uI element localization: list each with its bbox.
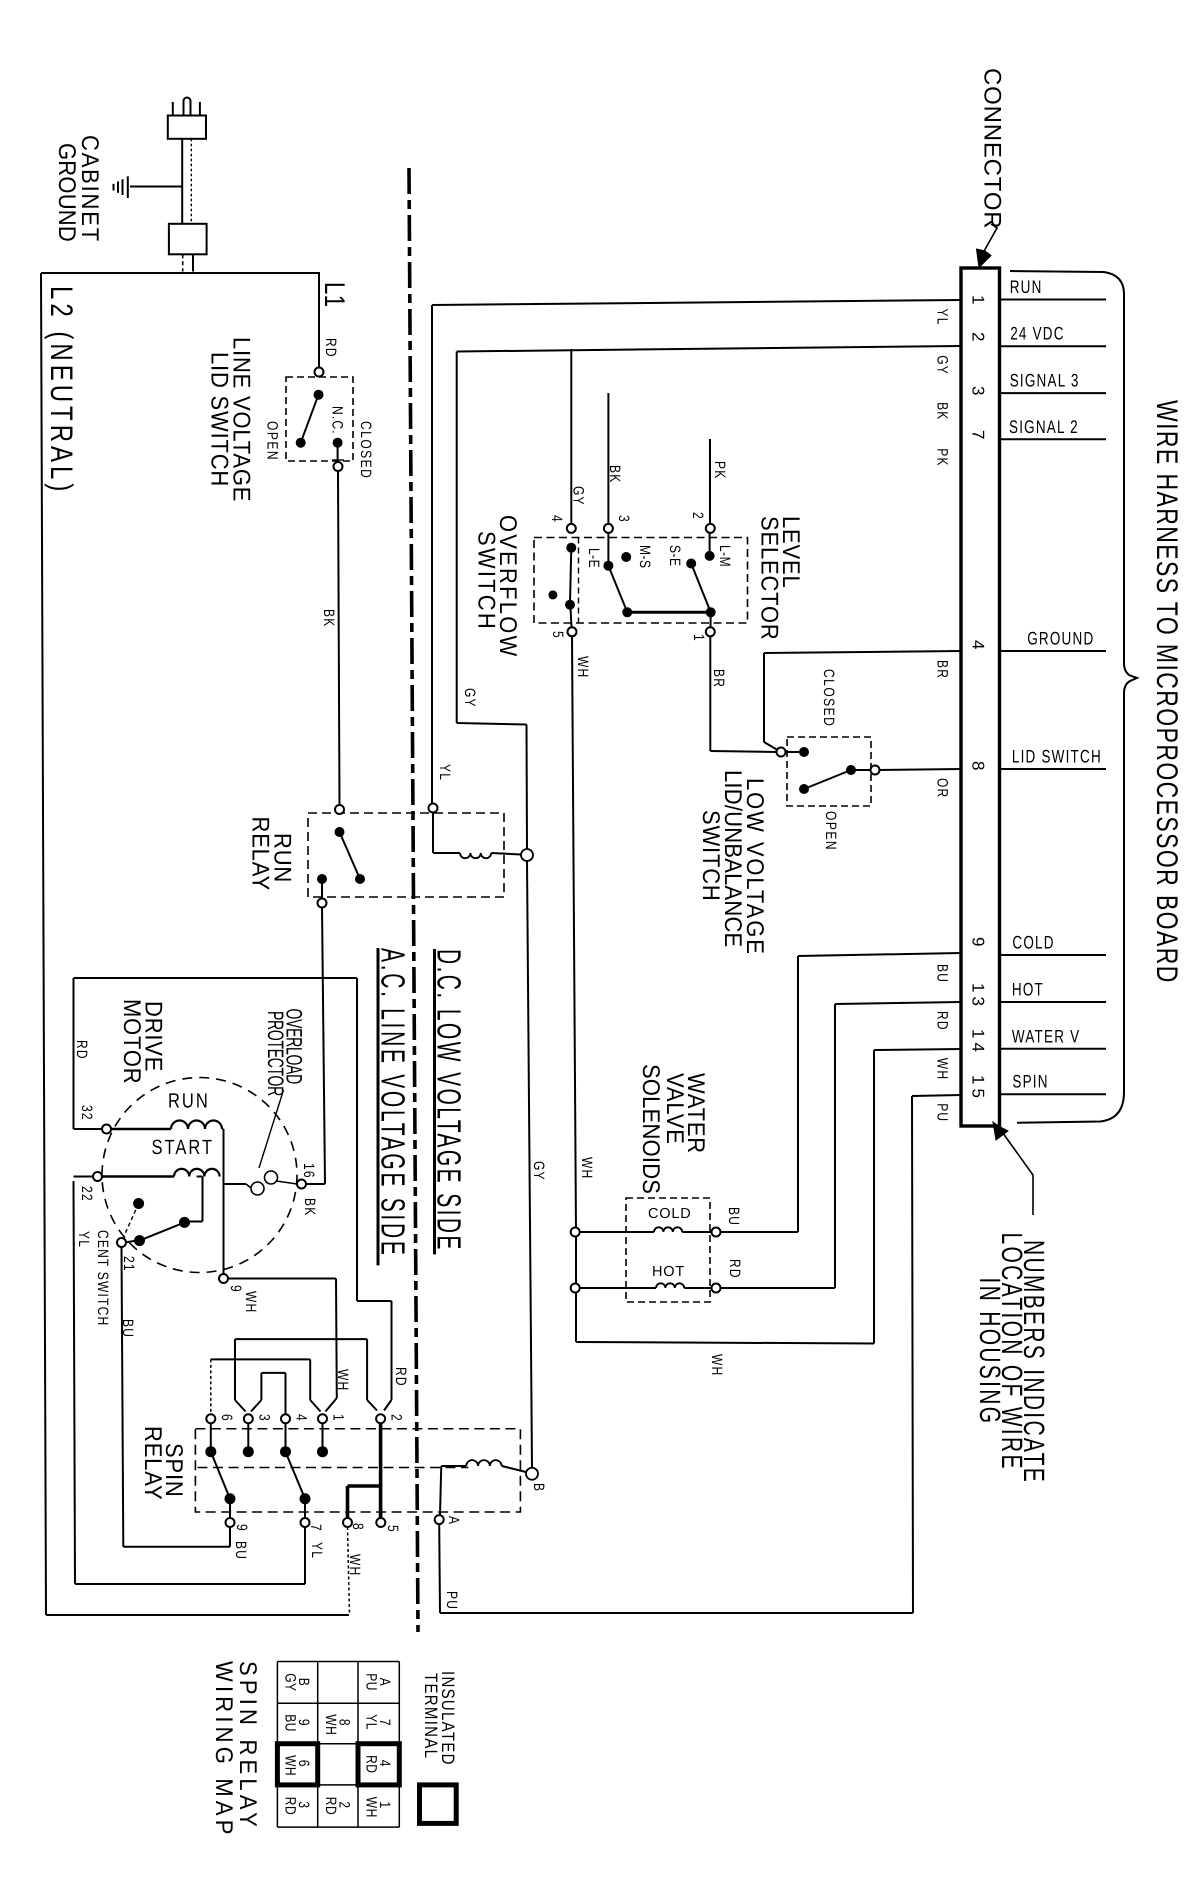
svg-text:PU: PU bbox=[934, 1103, 952, 1122]
svg-text:L1: L1 bbox=[319, 282, 352, 307]
svg-text:YL: YL bbox=[363, 1714, 381, 1730]
svg-text:N.C.: N.C. bbox=[329, 406, 347, 435]
svg-text:15: 15 bbox=[969, 1075, 988, 1102]
svg-text:GY: GY bbox=[530, 1161, 548, 1181]
svg-text:RUN: RUN bbox=[168, 1090, 210, 1113]
svg-text:1: 1 bbox=[690, 634, 708, 641]
svg-text:BU: BU bbox=[119, 1319, 137, 1338]
svg-text:WH: WH bbox=[578, 1157, 596, 1179]
svg-text:WH: WH bbox=[282, 1755, 300, 1776]
svg-text:YL: YL bbox=[75, 1231, 93, 1248]
svg-text:L-E: L-E bbox=[585, 548, 603, 568]
svg-text:3: 3 bbox=[615, 515, 633, 522]
svg-text:START: START bbox=[152, 1137, 215, 1160]
svg-text:RUN: RUN bbox=[1010, 277, 1043, 297]
svg-text:YL: YL bbox=[436, 764, 454, 781]
svg-text:YL: YL bbox=[934, 309, 952, 326]
svg-text:9: 9 bbox=[969, 937, 988, 950]
svg-text:WATER V: WATER V bbox=[1012, 1026, 1080, 1046]
svg-text:SPIN: SPIN bbox=[1012, 1072, 1048, 1092]
svg-text:1: 1 bbox=[969, 295, 988, 308]
svg-text:5: 5 bbox=[384, 1525, 402, 1532]
svg-text:3: 3 bbox=[969, 386, 988, 399]
svg-text:BU: BU bbox=[934, 964, 952, 983]
svg-text:S-E: S-E bbox=[666, 545, 684, 567]
svg-text:GY: GY bbox=[570, 486, 588, 506]
svg-text:BK: BK bbox=[934, 402, 952, 420]
svg-text:COLD: COLD bbox=[1012, 932, 1054, 952]
svg-text:SIGNAL 2: SIGNAL 2 bbox=[1009, 417, 1079, 437]
svg-text:SWITCH: SWITCH bbox=[473, 531, 501, 631]
svg-text:GY: GY bbox=[934, 355, 952, 375]
svg-text:HOT: HOT bbox=[652, 1264, 685, 1280]
svg-text:COLD: COLD bbox=[648, 1206, 692, 1222]
svg-text:PK: PK bbox=[711, 461, 729, 479]
svg-text:BK: BK bbox=[320, 609, 338, 627]
svg-text:MOTOR: MOTOR bbox=[119, 999, 147, 1084]
svg-text:WH: WH bbox=[934, 1058, 952, 1080]
svg-text:RD: RD bbox=[726, 1259, 744, 1279]
svg-text:WH: WH bbox=[363, 1797, 381, 1818]
svg-text:RD: RD bbox=[322, 1797, 340, 1815]
svg-text:WIRE HARNESS TO MICROPROCESSOR: WIRE HARNESS TO MICROPROCESSOR BOARD bbox=[1151, 400, 1185, 984]
svg-text:RD: RD bbox=[282, 1797, 300, 1815]
svg-text:SOLENOIDS: SOLENOIDS bbox=[638, 1064, 666, 1194]
svg-text:3: 3 bbox=[256, 1414, 274, 1421]
svg-text:BK: BK bbox=[606, 465, 624, 483]
svg-text:21: 21 bbox=[120, 1256, 138, 1272]
svg-text:YL: YL bbox=[308, 1542, 326, 1559]
svg-text:VALVE: VALVE bbox=[662, 1073, 690, 1145]
svg-text:RELAY: RELAY bbox=[247, 817, 275, 892]
svg-text:PU: PU bbox=[443, 1591, 461, 1610]
svg-text:WH: WH bbox=[334, 1369, 352, 1391]
svg-text:CLOSED: CLOSED bbox=[820, 669, 838, 727]
svg-text:L2 (NEUTRAL): L2 (NEUTRAL) bbox=[43, 286, 78, 495]
svg-text:TERMINAL: TERMINAL bbox=[420, 1673, 440, 1759]
svg-text:GROUND: GROUND bbox=[1027, 628, 1094, 648]
svg-text:WH: WH bbox=[322, 1714, 340, 1735]
svg-text:RD: RD bbox=[363, 1755, 381, 1773]
svg-text:LID SWITCH: LID SWITCH bbox=[1012, 746, 1102, 766]
svg-text:BU: BU bbox=[725, 1207, 743, 1226]
svg-text:WH: WH bbox=[242, 1291, 260, 1313]
svg-text:4: 4 bbox=[548, 515, 566, 522]
svg-text:32: 32 bbox=[78, 1105, 96, 1121]
svg-text:RD: RD bbox=[934, 1011, 952, 1031]
svg-text:6: 6 bbox=[218, 1414, 236, 1421]
svg-text:22: 22 bbox=[78, 1186, 96, 1202]
svg-text:IN HOUSING: IN HOUSING bbox=[973, 1278, 1005, 1426]
svg-text:2: 2 bbox=[969, 332, 988, 345]
svg-text:1: 1 bbox=[330, 1414, 348, 1421]
svg-text:RD: RD bbox=[322, 338, 340, 358]
svg-text:GROUND: GROUND bbox=[54, 143, 82, 242]
svg-text:OR: OR bbox=[934, 778, 952, 798]
svg-text:4: 4 bbox=[293, 1414, 311, 1421]
svg-text:14: 14 bbox=[969, 1029, 988, 1056]
svg-text:WH: WH bbox=[574, 656, 592, 678]
svg-text:24 VDC: 24 VDC bbox=[1010, 324, 1064, 344]
svg-text:BU: BU bbox=[282, 1714, 300, 1732]
svg-text:9: 9 bbox=[233, 1524, 251, 1531]
svg-text:BR: BR bbox=[710, 669, 728, 688]
svg-text:PK: PK bbox=[934, 448, 952, 466]
svg-text:SPIN RELAY: SPIN RELAY bbox=[235, 1661, 263, 1831]
svg-text:LID SWITCH: LID SWITCH bbox=[206, 352, 234, 487]
svg-text:RD: RD bbox=[73, 1040, 91, 1060]
svg-text:L-M: L-M bbox=[716, 545, 734, 567]
svg-text:RD: RD bbox=[392, 1367, 410, 1387]
svg-text:B: B bbox=[530, 1483, 548, 1492]
svg-text:CENT SWITCH: CENT SWITCH bbox=[94, 1230, 112, 1326]
svg-text:7: 7 bbox=[307, 1524, 325, 1531]
svg-text:GY: GY bbox=[461, 688, 479, 708]
svg-text:8: 8 bbox=[969, 761, 988, 774]
svg-text:2: 2 bbox=[689, 512, 707, 519]
svg-text:M-S: M-S bbox=[636, 545, 654, 569]
svg-text:SIGNAL 3: SIGNAL 3 bbox=[1010, 370, 1080, 390]
svg-text:PROTECTOR: PROTECTOR bbox=[263, 1011, 289, 1096]
svg-text:LEVEL: LEVEL bbox=[778, 516, 806, 589]
svg-text:WIRING MAP: WIRING MAP bbox=[211, 1661, 239, 1839]
svg-text:13: 13 bbox=[969, 983, 988, 1010]
svg-text:PU: PU bbox=[363, 1673, 381, 1691]
svg-text:BU: BU bbox=[232, 1541, 250, 1560]
svg-text:OPEN: OPEN bbox=[264, 421, 282, 461]
svg-text:CLOSED: CLOSED bbox=[357, 421, 375, 479]
svg-text:16: 16 bbox=[300, 1163, 318, 1179]
svg-text:BR: BR bbox=[934, 660, 952, 679]
svg-text:2: 2 bbox=[388, 1414, 406, 1421]
svg-text:HOT: HOT bbox=[1012, 979, 1044, 999]
svg-text:CONNECTOR: CONNECTOR bbox=[978, 68, 1005, 229]
svg-text:RELAY: RELAY bbox=[140, 1426, 168, 1501]
svg-text:A: A bbox=[445, 1516, 463, 1525]
svg-text:5: 5 bbox=[549, 631, 567, 638]
svg-text:7: 7 bbox=[969, 430, 988, 443]
svg-text:GY: GY bbox=[282, 1673, 300, 1691]
svg-text:SWITCH: SWITCH bbox=[698, 810, 726, 902]
svg-text:8: 8 bbox=[349, 1523, 367, 1530]
svg-text:BK: BK bbox=[301, 1198, 319, 1216]
svg-text:OPEN: OPEN bbox=[822, 811, 840, 851]
svg-text:WH: WH bbox=[708, 1354, 726, 1376]
svg-text:4: 4 bbox=[969, 640, 988, 653]
